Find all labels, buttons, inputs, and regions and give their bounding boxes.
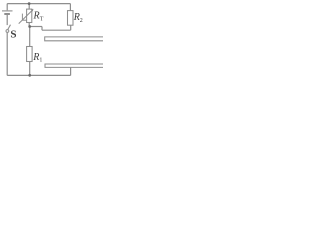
- svg-text:T: T: [40, 16, 44, 22]
- node C junction dot: [28, 74, 31, 77]
- wire node A to RT: [28, 4, 30, 10]
- switch S blade: [8, 25, 11, 30]
- resistor R2 box: [68, 11, 74, 26]
- wire top horizontal: [7, 3, 70, 5]
- switch S circle: [6, 30, 9, 33]
- wire top to R2: [69, 4, 71, 11]
- resistor RT box: [27, 9, 32, 22]
- wire step to R2 riser: [42, 29, 71, 31]
- heater box C: [45, 64, 104, 67]
- wire step down: [41, 27, 43, 31]
- wire RT to node B: [28, 23, 30, 27]
- RT arrow diagonal: [19, 10, 33, 23]
- wire battery to switch: [6, 15, 8, 25]
- wire left vertical to battery: [6, 4, 8, 11]
- svg-text:2: 2: [80, 18, 83, 24]
- wire riser box C to bottom wire: [70, 67, 72, 75]
- battery E long plate: [2, 10, 13, 12]
- RT thermistor foot horizontal: [22, 19, 26, 21]
- svg-text:S: S: [10, 28, 16, 40]
- RT thermistor foot vertical: [21, 14, 23, 21]
- wire node B to step: [30, 26, 42, 28]
- battery E short plate: [4, 13, 10, 15]
- wire R1 to bottom wire: [29, 62, 31, 76]
- svg-text:R: R: [73, 12, 80, 23]
- node B junction dot: [28, 25, 31, 28]
- RT arrowhead: [31, 9, 34, 12]
- wire R2 riser: [70, 25, 72, 30]
- wire switch to bottom: [6, 33, 8, 76]
- wire bottom horizontal: [7, 74, 70, 76]
- resistor R1 box: [27, 47, 32, 62]
- wire node B down to R1: [29, 27, 31, 47]
- heater box B: [45, 37, 104, 41]
- svg-text:R: R: [32, 52, 39, 63]
- svg-text:R: R: [33, 10, 40, 21]
- svg-text:1: 1: [39, 58, 42, 64]
- node A junction dot: [28, 2, 31, 5]
